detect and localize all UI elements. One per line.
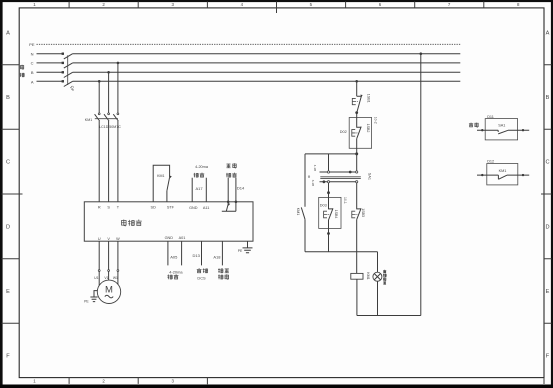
svg-text:STF: STF [167, 206, 175, 210]
wire T phase to VFD [117, 121, 119, 202]
svg-text:KM1: KM1 [157, 174, 164, 178]
run command stub D13 运行 DCS [193, 241, 208, 280]
svg-text:PE: PE [238, 249, 243, 253]
wire drop from B to KM1 pole 2 [107, 71, 110, 113]
pins R S T [98, 206, 120, 210]
ground PE at motor [84, 291, 97, 304]
svg-text:M: M [105, 284, 113, 295]
svg-text:10-1: 10-1 [343, 197, 347, 204]
wire R phase to VFD [98, 121, 100, 202]
fault output stubs D14 异常输出 [226, 163, 245, 203]
svg-text:1SB3: 1SB3 [361, 208, 365, 217]
svg-text:QF: QF [70, 86, 75, 92]
power source label 电源 [20, 65, 24, 77]
box D03 pushbutton 1SB4 [319, 197, 347, 228]
svg-text:4-20ma: 4-20ma [169, 269, 183, 274]
pin A11 [203, 206, 209, 210]
analog input stub A05 4-20ma 输入 [167, 241, 183, 279]
aux contact KM1 seal-in [296, 207, 305, 251]
wire bottom return [357, 315, 421, 317]
svg-text:U1: U1 [94, 276, 98, 280]
svg-text:GND: GND [189, 206, 198, 210]
motor M [97, 280, 120, 303]
svg-text:1SB1: 1SB1 [366, 94, 370, 103]
svg-text:A18: A18 [213, 255, 221, 260]
svg-text:A05: A05 [170, 255, 178, 260]
motor terminal U1 [94, 241, 100, 285]
net N power line [31, 51, 461, 56]
motor terminal W1 [113, 241, 119, 284]
coil KM1 [351, 272, 370, 315]
junction below 1SB1 [355, 111, 358, 117]
svg-text:PE: PE [84, 299, 89, 303]
svg-text:D02: D02 [340, 130, 347, 134]
svg-text:4-1B: 4-1B [313, 165, 317, 171]
svg-text:D13: D13 [193, 253, 201, 258]
svg-text:KM1: KM1 [499, 169, 507, 173]
wire drop from A to KM1 pole 1 [98, 80, 101, 113]
box D02 pushbutton 1SB2 start NO [340, 117, 378, 149]
svg-text:A01: A01 [179, 236, 186, 240]
net C power line [31, 61, 461, 66]
svg-text:E: E [6, 289, 10, 295]
wire S phase to VFD [108, 121, 110, 202]
pin SD [151, 206, 157, 210]
svg-text:D: D [6, 224, 10, 230]
svg-text:F: F [6, 354, 10, 360]
svg-text:A: A [31, 79, 34, 84]
ground PE at VFD [238, 241, 253, 253]
svg-text:KM1: KM1 [85, 118, 92, 122]
svg-text:D14: D14 [237, 185, 245, 190]
pin STF [167, 206, 175, 210]
svg-text:KM1: KM1 [296, 208, 300, 215]
pin A01 [179, 236, 186, 240]
selector switch SA1 [308, 154, 371, 186]
svg-text:1SB4: 1SB4 [334, 210, 338, 219]
svg-text:SD: SD [151, 206, 157, 210]
wire drop from C to KM1 pole 3 [117, 62, 120, 113]
svg-text:A: A [6, 30, 10, 36]
pushbutton 1SB3 [352, 183, 365, 274]
svg-text:PE: PE [29, 42, 35, 47]
svg-text:F: F [546, 354, 550, 360]
svg-text:6-1B: 6-1B [311, 180, 315, 186]
frequency detect stub A18 频率 检测 [213, 241, 228, 279]
box D11 remote selector SA1 本地 [469, 115, 529, 140]
motor terminal V1 [104, 241, 109, 280]
pins U V W [98, 237, 120, 241]
svg-text:SA1: SA1 [367, 173, 371, 180]
svg-text:D: D [545, 224, 549, 230]
wire coil bus horizontal [305, 251, 378, 253]
aux contact KM1 between SD and STF [153, 165, 172, 202]
svg-text:4-20ma: 4-20ma [195, 165, 209, 169]
wire N return riser [420, 52, 423, 315]
svg-text:B: B [6, 95, 10, 101]
junction below D02 box [355, 148, 358, 155]
VFD inverter U1 变频器 [84, 202, 253, 241]
svg-text:C: C [545, 160, 549, 166]
wire below D03 [327, 228, 330, 251]
pin GND bottom [165, 236, 174, 240]
svg-text:V1: V1 [104, 276, 108, 280]
contactor KM1 main contacts [85, 113, 119, 122]
svg-text:E: E [546, 289, 550, 295]
svg-text:DCS: DCS [197, 275, 206, 280]
lamp 运转指示 [373, 252, 386, 316]
svg-text:GND: GND [165, 236, 174, 240]
svg-text:10-2: 10-2 [373, 117, 377, 124]
svg-text:KM1: KM1 [366, 272, 370, 279]
wire from SA1 to D03 [327, 183, 330, 198]
svg-text:D11: D11 [487, 115, 494, 119]
svg-text:D12: D12 [487, 160, 494, 164]
net A power line [31, 79, 460, 84]
svg-text:A11: A11 [203, 206, 209, 210]
svg-text:R: R [98, 206, 101, 210]
wire control tap from net A [355, 80, 358, 96]
svg-text:A17: A17 [196, 186, 204, 191]
svg-text:W1: W1 [113, 276, 118, 280]
svg-text:U: U [98, 237, 101, 241]
wire left branch down [304, 154, 306, 207]
value label LC1D 50M7C [99, 125, 121, 129]
svg-text:C: C [31, 61, 34, 66]
svg-text:N: N [31, 51, 34, 56]
svg-text:D03: D03 [320, 203, 327, 207]
fault relay contact inside VFD [222, 202, 236, 212]
net B power line [31, 70, 460, 75]
4-20ma output stubs A17 [192, 165, 209, 202]
net PE power line [29, 42, 460, 47]
svg-text:W: W [116, 237, 120, 241]
box D12 remote contact KM1 [477, 160, 529, 185]
svg-text:B: B [546, 95, 550, 101]
svg-text:1SB2: 1SB2 [366, 124, 370, 133]
wire seal-in bus horizontal [305, 153, 357, 155]
pin GND top [189, 206, 198, 210]
svg-text:C: C [6, 160, 10, 166]
pushbutton 1SB1 stop NC [352, 94, 370, 112]
svg-text:A: A [546, 30, 550, 36]
breaker QF [62, 53, 75, 92]
svg-text:B: B [31, 70, 34, 75]
svg-text:SA1: SA1 [498, 124, 505, 128]
